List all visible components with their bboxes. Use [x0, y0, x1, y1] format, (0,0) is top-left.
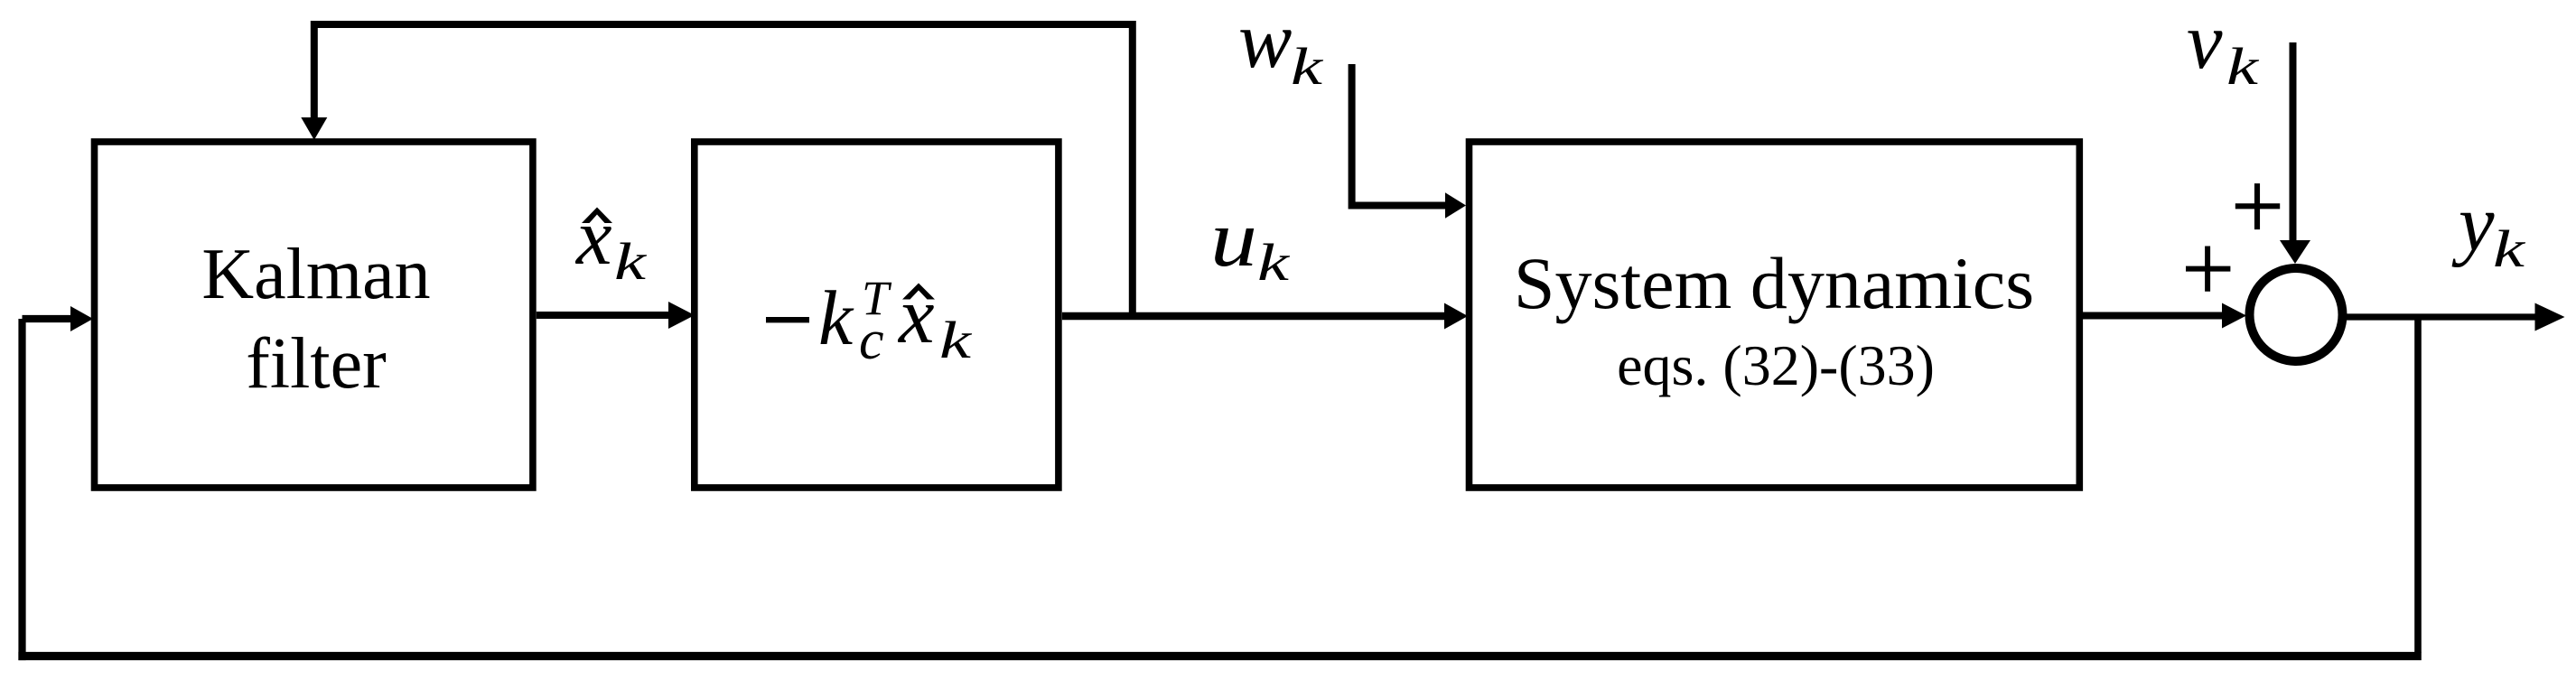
- svg-text:k: k: [818, 275, 854, 361]
- arrowhead v_k into summing junction: [2280, 240, 2310, 264]
- wire top feedback from u_k node to Kalman filter top: [314, 24, 1133, 316]
- label u_k: [1210, 195, 1291, 292]
- svg-text:k: k: [1291, 37, 1324, 96]
- svg-text:k: k: [2226, 37, 2260, 96]
- wire w_k into System dynamics: [1352, 64, 1447, 206]
- wire System dynamics to summing junction: [2079, 312, 2224, 320]
- svg-text:Kalman: Kalman: [201, 235, 430, 314]
- plus sign left input: [2186, 247, 2230, 292]
- block state feedback gain: [695, 142, 1059, 488]
- svg-text:System dynamics: System dynamics: [1514, 242, 2034, 324]
- summing junction circle: [2250, 268, 2343, 361]
- arrowhead into Kalman filter top: [301, 117, 327, 140]
- block Kalman filter: [95, 142, 533, 488]
- wire feedback tap down from output: [2414, 317, 2422, 653]
- svg-text:u: u: [1210, 195, 1257, 284]
- wire feedback left rise: [18, 319, 25, 660]
- svg-text:k: k: [2493, 219, 2526, 278]
- svg-text:x: x: [897, 272, 935, 360]
- svg-text:v: v: [2187, 0, 2223, 86]
- wire output y_k: [2347, 313, 2536, 320]
- arrowhead feedback into Kalman filter: [70, 306, 93, 331]
- wire feedback bottom run: [18, 652, 2421, 660]
- label -k_c^T x_k formula: [766, 271, 973, 371]
- arrowhead into gain block: [668, 302, 695, 329]
- svg-text:eqs. (32)-(33): eqs. (32)-(33): [1617, 333, 1935, 397]
- arrowhead u_k into System dynamics: [1444, 303, 1468, 330]
- svg-text:k: k: [614, 232, 648, 291]
- svg-text:k: k: [1257, 233, 1291, 292]
- label v_k: [2187, 0, 2260, 96]
- arrowhead output: [2535, 303, 2565, 331]
- svg-text:y: y: [2451, 180, 2495, 268]
- svg-text:c: c: [859, 310, 884, 371]
- svg-text:k: k: [939, 311, 973, 369]
- label x_k estimate: [574, 193, 648, 291]
- plus sign upper input: [2235, 183, 2280, 229]
- wire Kalman filter to gain block: [537, 312, 670, 319]
- block System dynamics: [1470, 142, 2080, 488]
- wire u_k from gain block to System dynamics: [1062, 312, 1446, 321]
- label w_k: [1238, 0, 1324, 96]
- svg-text:w: w: [1238, 0, 1292, 85]
- svg-text:filter: filter: [246, 324, 386, 404]
- wire v_k into summing junction: [2290, 42, 2297, 242]
- label y_k: [2451, 180, 2526, 278]
- svg-text:x: x: [574, 193, 612, 282]
- arrowhead w_k into System dynamics: [1445, 192, 1466, 219]
- wire feedback into Kalman filter: [23, 315, 73, 322]
- arrowhead into summing junction: [2222, 303, 2246, 329]
